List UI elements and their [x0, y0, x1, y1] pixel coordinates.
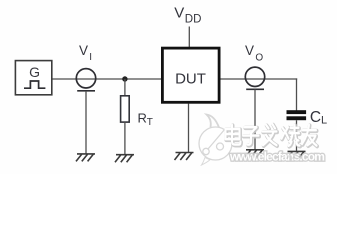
ground (DUT) [175, 153, 194, 161]
DUT block U1 [162, 48, 219, 102]
svg-text:V: V [174, 5, 184, 22]
svg-text:V: V [245, 43, 254, 58]
capacitor CL [287, 109, 328, 127]
watermark logo (elecfans bubble) [199, 115, 232, 166]
pulse generator G [15, 61, 51, 95]
wire: DUT output to load corner [220, 78, 297, 80]
wire: corner down to capacitor CL top [296, 78, 298, 110]
wire: DUT bottom to ground [188, 104, 190, 153]
junction node (VI / RT) [122, 76, 127, 81]
svg-text:DUT: DUT [175, 70, 206, 87]
svg-text:L: L [321, 115, 327, 127]
voltage probe VO (circle on wire) [245, 67, 264, 89]
node VO label [245, 43, 263, 63]
ground (RT) [115, 155, 134, 163]
wire: VDD to DUT top [188, 27, 190, 48]
svg-text:DD: DD [185, 14, 202, 26]
svg-text:www.elecfans.com: www.elecfans.com [229, 150, 324, 164]
watermark text (url) [229, 150, 324, 164]
svg-text:V: V [79, 43, 88, 58]
wire: VI probe to ground [85, 91, 87, 154]
ground (VO probe) [245, 150, 264, 158]
supply label VDD [174, 5, 201, 26]
ground (VI probe) [76, 154, 95, 162]
wire: CL bottom to ground [296, 120, 298, 151]
svg-text:O: O [255, 52, 263, 63]
ground (CL) [287, 151, 306, 159]
wire: RT to ground [124, 122, 126, 155]
wire: generator output to DUT input [52, 78, 162, 80]
resistor RT [121, 96, 153, 128]
svg-text:G: G [29, 64, 40, 80]
voltage probe VI (circle on wire) [76, 69, 95, 91]
wire: junction down to RT [124, 79, 126, 96]
watermark text (Chinese: dian zi fa shao you) [226, 124, 318, 146]
svg-text:T: T [147, 117, 153, 128]
node VI label [79, 43, 92, 63]
wire: VO probe to ground [254, 90, 256, 150]
svg-text:R: R [138, 111, 147, 126]
svg-text:C: C [310, 109, 321, 126]
svg-text:I: I [89, 52, 92, 63]
